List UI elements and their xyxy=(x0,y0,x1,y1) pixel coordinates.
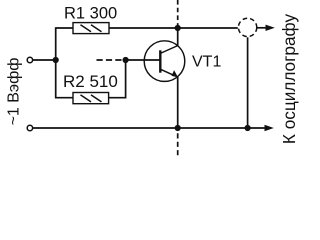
output terminal dashed circle xyxy=(238,18,256,36)
wire bottom rail xyxy=(33,127,266,129)
svg-text:~1 Вэфф: ~1 Вэфф xyxy=(6,58,23,126)
wire input upper xyxy=(33,59,56,61)
input terminal upper xyxy=(27,57,32,62)
wire dashed top continuation xyxy=(177,0,179,25)
wire left vertical to R2 xyxy=(56,27,73,98)
svg-text:VT1: VT1 xyxy=(192,54,221,71)
node junction left xyxy=(53,57,59,63)
wire R2 right vertical xyxy=(109,60,126,98)
node collector junction xyxy=(175,25,181,31)
svg-text:R2 510: R2 510 xyxy=(63,72,118,91)
svg-text:К осциллографу: К осциллографу xyxy=(279,14,299,145)
node emitter bottom junction xyxy=(175,125,181,131)
resistor R2 xyxy=(73,93,109,104)
wire emitter vertical xyxy=(177,77,179,128)
transistor VT1 xyxy=(144,41,185,82)
resistor R1 xyxy=(73,23,109,34)
wire output arrow top xyxy=(257,27,267,29)
wire collector vertical xyxy=(177,28,179,46)
wire output vertical xyxy=(247,37,249,128)
wire top rail xyxy=(56,27,238,29)
node output bottom junction xyxy=(245,125,251,131)
svg-text:R1 300: R1 300 xyxy=(64,5,117,23)
node junction base xyxy=(123,57,129,63)
wire dashed bottom continuation xyxy=(177,133,179,158)
wire base xyxy=(126,59,160,61)
input terminal lower xyxy=(27,125,32,130)
wire dashed base feed xyxy=(97,59,123,61)
